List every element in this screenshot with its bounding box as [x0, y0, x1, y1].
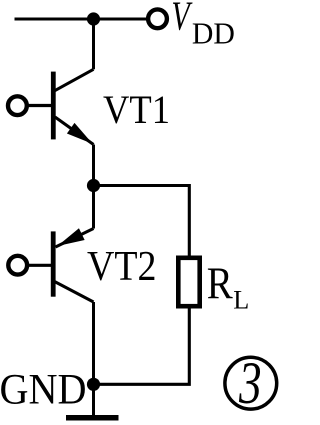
wire: VT2 collector down to ground node: [92, 302, 95, 417]
ground symbol bar: [66, 415, 119, 421]
transistor VT2 collector lead: [55, 282, 94, 303]
transistor VT1 emitter lead: [55, 117, 94, 145]
transistor VT2 emitter lead: [56, 229, 94, 248]
wire: mid node to resistor branch top: [94, 186, 190, 259]
svg-text:V: V: [171, 0, 193, 39]
terminal VDD open circle: [148, 9, 167, 28]
resistor RL body: [178, 258, 199, 306]
wire: VT2 base lead: [27, 264, 52, 267]
terminal VT1 base input open circle: [8, 96, 27, 115]
svg-text:VT1: VT1: [103, 87, 170, 132]
svg-text:GND: GND: [0, 365, 87, 413]
node: ground junction: [87, 378, 100, 391]
wire: VT1 base lead: [27, 104, 52, 107]
wire: top rail horizontal: [15, 18, 149, 21]
svg-text:DD: DD: [192, 15, 235, 50]
svg-text:R: R: [207, 257, 233, 308]
svg-text:3: 3: [238, 350, 261, 417]
transistor VT1 base bar: [51, 72, 56, 140]
wire: VT1 emitter down to mid node: [92, 145, 95, 187]
transistor VT2 emitter arrow (PNP, pointing in): [58, 228, 85, 246]
wire: mid node down to VT2 emitter: [92, 186, 95, 229]
transistor VT1 collector lead: [55, 69, 94, 91]
figure number circle 3: [225, 357, 277, 409]
terminal VT2 base input open circle: [8, 256, 27, 275]
svg-text:L: L: [233, 286, 249, 315]
wire: from top junction down to VT1 collector: [92, 17, 95, 69]
transistor VT2 base bar: [51, 231, 56, 296]
node: mid junction: [87, 179, 100, 192]
transistor VT1 emitter arrow (NPN, pointing out): [67, 123, 93, 144]
wire: resistor bottom to ground rail: [94, 306, 190, 384]
node: top junction: [87, 12, 100, 25]
svg-text:VT2: VT2: [87, 243, 157, 290]
